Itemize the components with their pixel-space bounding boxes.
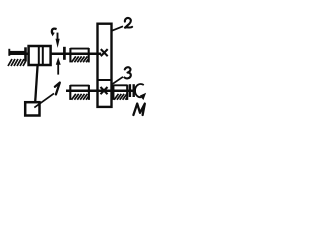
bearing D: left wall — [112, 85, 114, 100]
bearing C (motor shaft left): cap — [70, 85, 89, 87]
wire: drum shaft right segment — [51, 52, 102, 55]
bearing C: right wall — [88, 85, 90, 100]
load square 1 — [25, 102, 39, 115]
bearing D (motor shaft right): cap — [113, 84, 127, 86]
rope from drum to load — [35, 65, 37, 102]
bearing D: right wall — [126, 85, 128, 100]
bearing C: left wall — [69, 85, 71, 100]
bearing B: right wall — [88, 48, 90, 62]
label M (motor) — [133, 104, 144, 115]
hook arrowhead — [51, 32, 55, 36]
wire: drum shaft left segment — [9, 52, 29, 55]
up arrow below shaft: head — [56, 57, 61, 65]
down arrow head — [56, 39, 60, 48]
wire: motor shaft — [66, 89, 136, 92]
label 1 — [55, 83, 60, 95]
label 3 — [125, 67, 131, 78]
bearing A: wall — [24, 47, 27, 61]
bearing C: hatching — [72, 94, 89, 100]
bearing B: hatching — [72, 56, 89, 62]
up arrow stem — [57, 64, 59, 75]
rotation arrow hook above shaft — [52, 29, 57, 34]
down arrow to shaft: stem — [57, 33, 59, 41]
drum internal line 2 — [42, 46, 44, 65]
bearing A: cap line — [9, 51, 25, 53]
bearing A (left end support): end tick — [8, 49, 10, 56]
bearing A: ground hatching — [8, 59, 26, 66]
label 2 — [125, 18, 132, 28]
gear bar on drum shaft — [63, 47, 66, 60]
gearbox divider — [98, 79, 112, 81]
leader line to label 1 — [34, 93, 54, 107]
leader line to label 3 — [112, 77, 123, 85]
drum internal line 1 — [38, 46, 40, 65]
gear X on motor shaft (lower) — [101, 87, 108, 94]
motor rotation arrow arc — [135, 84, 144, 97]
drum (rope drum) — [29, 46, 51, 65]
coupling bar 2 — [132, 84, 134, 97]
bearing B: left wall — [69, 48, 71, 62]
coupling bar 1 — [129, 84, 131, 97]
gear X on drum shaft (upper) — [101, 49, 108, 56]
bearing B (drum shaft, middle): cap — [70, 48, 89, 50]
gearbox housing (2/3) — [98, 24, 112, 107]
bearing D: hatching — [114, 94, 127, 100]
leader line to label 2 — [112, 26, 123, 30]
motor rotation arrowhead — [140, 93, 146, 100]
